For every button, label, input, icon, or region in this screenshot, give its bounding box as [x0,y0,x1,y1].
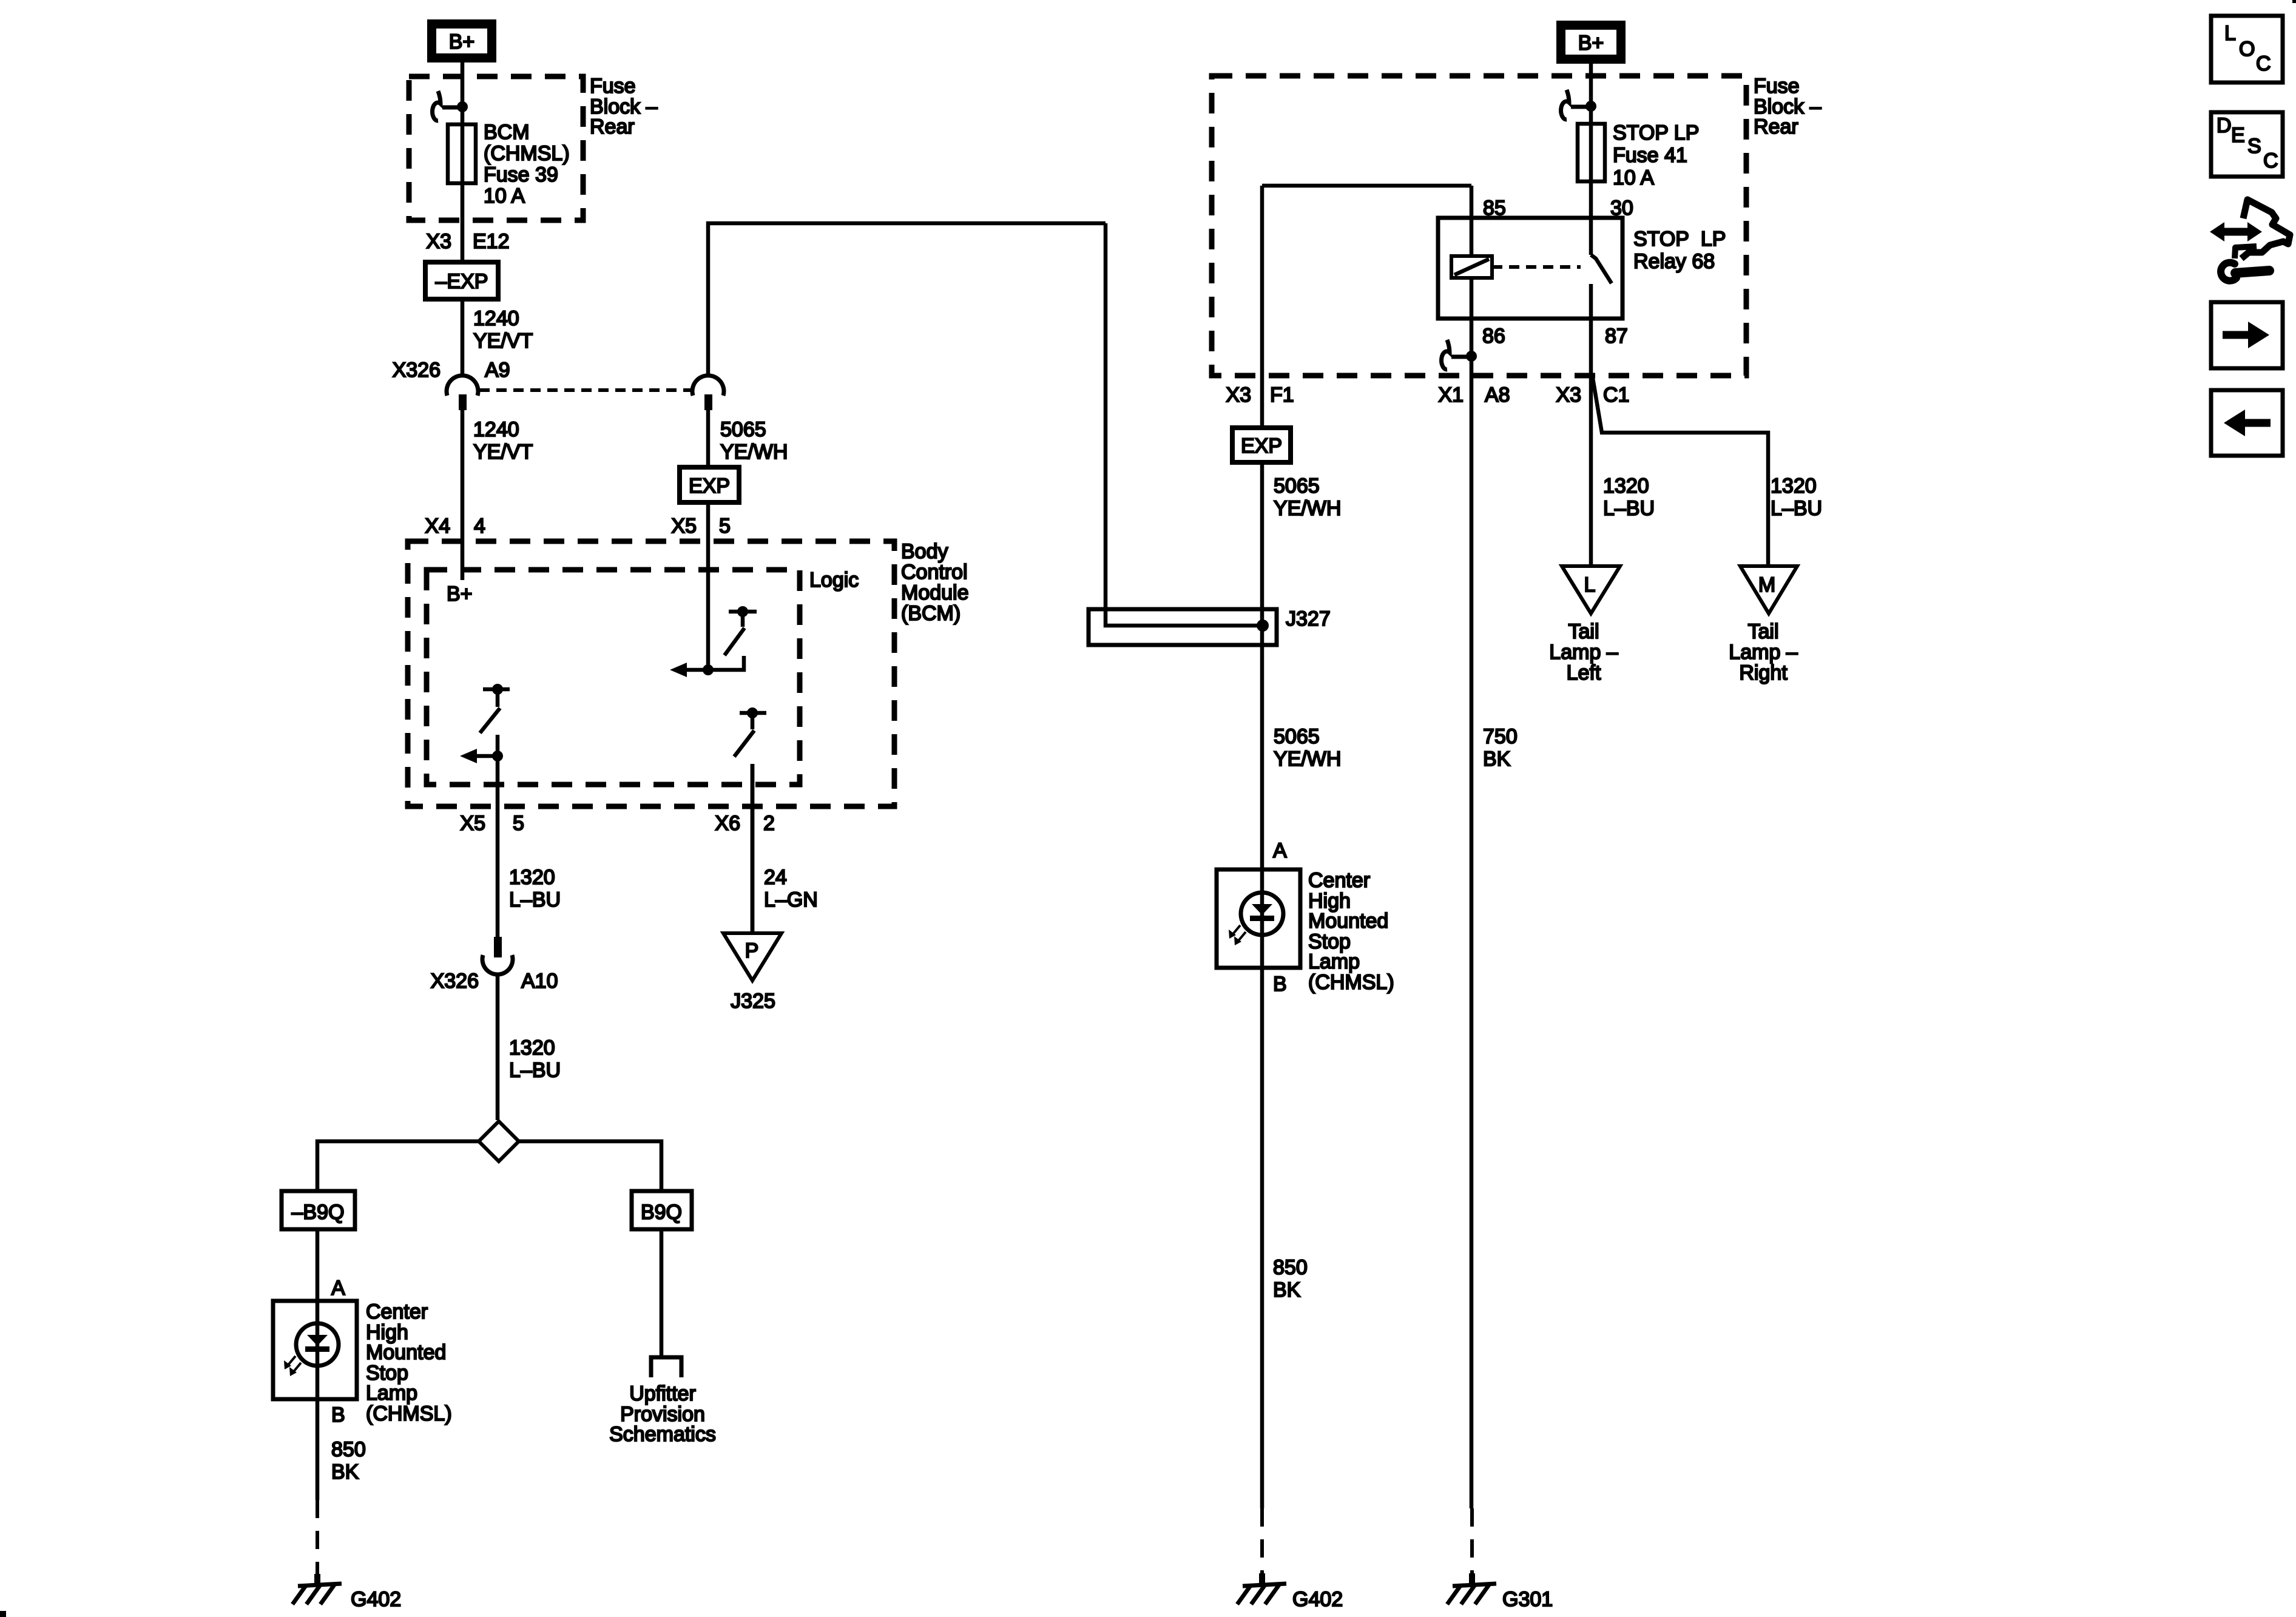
svg-text:L: L [2224,22,2236,45]
svg-text:YE/WH: YE/WH [1274,748,1341,771]
svg-text:B+: B+ [449,30,475,53]
svg-text:(CHMSL): (CHMSL) [1308,971,1394,994]
svg-text:24: 24 [764,866,787,889]
svg-text:Center: Center [366,1300,428,1323]
svg-text:1320: 1320 [509,866,555,889]
svg-text:Right: Right [1739,661,1788,684]
svg-text:X326: X326 [393,359,441,382]
svg-text:B9Q: B9Q [641,1201,682,1224]
svg-text:5065: 5065 [1274,474,1320,498]
svg-text:X3: X3 [1556,383,1581,407]
svg-text:850: 850 [1273,1256,1308,1279]
svg-text:X5: X5 [460,812,485,835]
svg-text:1240: 1240 [473,418,519,441]
svg-text:Rear: Rear [590,115,635,138]
svg-text:Mounted: Mounted [366,1341,446,1364]
svg-text:Body: Body [901,540,948,563]
svg-text:A: A [331,1277,345,1300]
svg-text:1320: 1320 [509,1036,555,1059]
svg-text:BK: BK [1273,1278,1301,1301]
svg-text:Fuse 39: Fuse 39 [484,163,558,186]
svg-text:Lamp: Lamp [1308,950,1360,973]
svg-text:X3: X3 [1226,383,1251,407]
svg-text:YE/WH: YE/WH [1274,497,1341,520]
svg-text:L–BU: L–BU [1771,497,1822,520]
svg-text:5: 5 [513,812,524,835]
svg-text:STOP LP: STOP LP [1613,121,1699,144]
svg-text:L–BU: L–BU [509,888,561,911]
svg-text:4: 4 [474,515,485,538]
svg-text:Center: Center [1308,869,1370,892]
svg-text:Schematics: Schematics [609,1423,716,1446]
svg-text:Control: Control [901,561,968,584]
svg-text:87: 87 [1605,325,1628,348]
svg-text:–EXP: –EXP [436,270,488,293]
svg-text:Tail: Tail [1747,620,1778,643]
svg-text:STOP LP: STOP LP [1633,228,1726,251]
svg-text:O: O [2239,38,2255,61]
svg-text:10 A: 10 A [1613,166,1654,189]
svg-text:L–BU: L–BU [1603,497,1655,520]
svg-text:M: M [1758,573,1775,596]
svg-text:YE/VT: YE/VT [473,441,533,464]
svg-text:L–GN: L–GN [764,888,818,911]
svg-text:Fuse 41: Fuse 41 [1613,144,1687,167]
svg-text:Logic: Logic [809,569,859,592]
svg-text:Left: Left [1567,661,1601,684]
svg-text:P: P [745,939,759,962]
svg-text:EXP: EXP [689,474,730,498]
svg-text:2: 2 [763,812,775,835]
svg-text:1240: 1240 [473,307,519,330]
svg-text:A10: A10 [521,970,558,993]
svg-text:E: E [2231,124,2245,147]
svg-text:C: C [2256,52,2271,75]
svg-text:(CHMSL): (CHMSL) [366,1402,452,1425]
svg-text:C1: C1 [1603,383,1629,407]
svg-text:850: 850 [331,1438,366,1461]
svg-text:5: 5 [719,515,731,538]
svg-text:S: S [2247,135,2261,158]
svg-text:B: B [1273,973,1287,996]
svg-text:Relay 68: Relay 68 [1633,250,1715,273]
svg-text:Lamp –: Lamp – [1729,641,1797,664]
svg-text:5065: 5065 [1274,725,1320,748]
svg-text:Fuse: Fuse [590,75,636,98]
svg-text:BK: BK [1483,748,1511,771]
svg-text:Fuse: Fuse [1754,75,1800,98]
svg-text:X5: X5 [671,515,697,538]
svg-text:A: A [1273,839,1287,862]
svg-text:10 A: 10 A [484,184,525,208]
svg-text:D: D [2217,114,2232,137]
svg-text:X4: X4 [425,515,450,538]
svg-text:750: 750 [1483,725,1518,748]
svg-text:J325: J325 [731,990,775,1013]
svg-text:B+: B+ [1578,32,1604,55]
svg-text:X3: X3 [426,230,451,253]
svg-text:1320: 1320 [1771,474,1817,498]
svg-text:G402: G402 [351,1588,401,1611]
svg-text:C: C [2263,149,2278,172]
svg-text:(CHMSL): (CHMSL) [484,142,570,165]
svg-text:BK: BK [331,1460,359,1484]
svg-text:X1: X1 [1438,383,1464,407]
svg-text:YE/WH: YE/WH [720,441,788,464]
svg-text:EXP: EXP [1241,434,1282,457]
svg-text:X6: X6 [715,812,740,835]
svg-text:F1: F1 [1270,383,1294,407]
svg-text:(BCM): (BCM) [901,602,961,625]
svg-text:A8: A8 [1485,383,1510,407]
svg-text:–B9Q: –B9Q [292,1201,345,1224]
svg-text:G402: G402 [1292,1588,1343,1611]
svg-text:B: B [331,1403,345,1426]
svg-text:BCM: BCM [484,121,530,144]
svg-text:G301: G301 [1502,1588,1553,1611]
svg-text:Lamp: Lamp [366,1382,417,1405]
svg-text:5065: 5065 [720,418,766,441]
svg-text:A9: A9 [485,359,510,382]
svg-text:Module: Module [901,581,969,604]
svg-text:Lamp –: Lamp – [1549,641,1618,664]
svg-text:YE/VT: YE/VT [473,329,533,353]
svg-text:Upfitter: Upfitter [629,1382,696,1405]
svg-text:Tail: Tail [1568,620,1599,643]
svg-text:B+: B+ [447,582,473,606]
svg-text:E12: E12 [473,230,510,253]
svg-text:1320: 1320 [1603,474,1649,498]
svg-text:86: 86 [1482,325,1505,348]
svg-text:J327: J327 [1286,607,1331,630]
svg-text:Mounted: Mounted [1308,910,1388,933]
svg-text:Rear: Rear [1754,115,1798,138]
svg-text:X326: X326 [431,970,479,993]
svg-text:L–BU: L–BU [509,1059,561,1082]
svg-text:L: L [1584,573,1596,596]
